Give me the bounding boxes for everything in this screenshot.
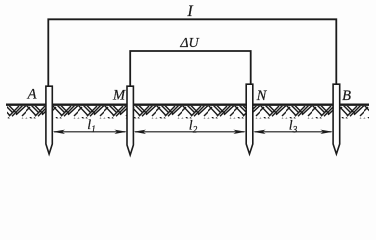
earth hatching: [7, 106, 369, 119]
ground surface line: [6, 104, 369, 106]
svg-text:I: I: [186, 3, 193, 20]
svg-text:B: B: [342, 88, 351, 104]
electrode A: [46, 86, 52, 154]
svg-text:ΔU: ΔU: [179, 36, 199, 51]
svg-text:N: N: [256, 88, 268, 104]
electrode N: [246, 84, 253, 154]
label dU (voltage): [179, 36, 199, 51]
wire I-loop (current circuit A to B): [48, 19, 336, 86]
wire dU-loop (voltage circuit M to N): [130, 51, 251, 87]
label N: [256, 88, 268, 104]
label A: [27, 87, 37, 103]
svg-text:M: M: [112, 88, 126, 104]
svg-text:A: A: [27, 87, 37, 103]
electrode B: [333, 84, 340, 154]
dimension l1 (A to M): [53, 118, 127, 134]
label M: [112, 88, 126, 104]
label I (current): [186, 3, 193, 20]
dimension l2 (M to N): [134, 119, 246, 135]
electrode M: [127, 86, 133, 155]
label B: [342, 88, 351, 104]
dimension l3 (N to B): [253, 119, 333, 135]
